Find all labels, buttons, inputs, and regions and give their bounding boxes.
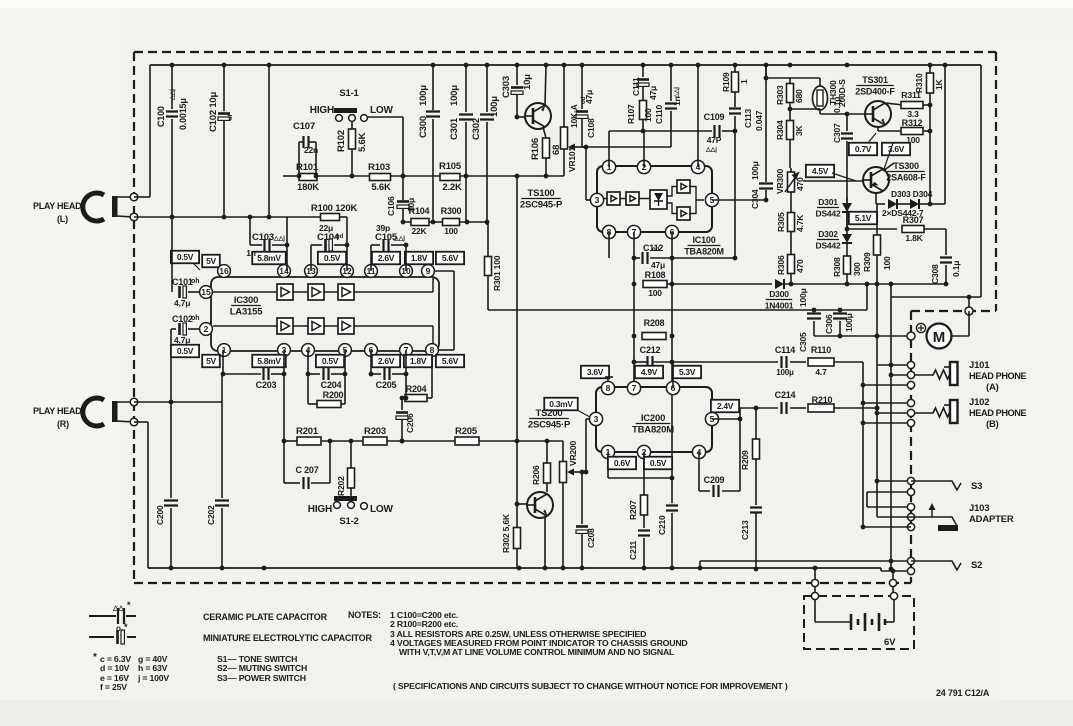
svg-text:C209: C209 — [704, 475, 725, 485]
svg-text:R301 100: R301 100 — [492, 255, 502, 291]
svg-text:0.5V: 0.5V — [322, 356, 339, 366]
capacitor C113 — [729, 109, 741, 114]
svg-text:od: od — [336, 234, 344, 240]
thermistor TH300 — [819, 78, 821, 87]
capacitor C213 — [750, 508, 762, 513]
svg-text:2SD400-F: 2SD400-F — [855, 87, 895, 97]
wire IC100 pin4 riser — [697, 65, 699, 167]
svg-text:C204: C204 — [321, 380, 342, 390]
voltage 1.8V — [405, 252, 433, 265]
wire TS300 base — [803, 180, 863, 182]
svg-text:R102: R102 — [336, 130, 347, 152]
resistor R107 — [640, 101, 647, 120]
svg-text:22μ: 22μ — [319, 223, 333, 233]
svg-text:R203: R203 — [364, 426, 386, 437]
voltage 4.5V — [806, 165, 834, 178]
IC200 pin 4 — [692, 445, 705, 458]
svg-text:5.6V: 5.6V — [442, 253, 459, 263]
IC300 pin 11 — [365, 265, 378, 278]
wire C113 down to pin6 node — [734, 131, 736, 258]
voltage 0.3mV — [544, 398, 578, 411]
voltage 2.6V — [372, 252, 400, 265]
svg-text:C206: C206 — [405, 413, 415, 433]
svg-text:VR200: VR200 — [568, 441, 578, 466]
resistor R207 — [643, 452, 645, 495]
svg-text:0.3mV: 0.3mV — [549, 399, 573, 409]
wire IC100 pin6 to filter — [671, 232, 673, 478]
svg-text:180K: 180K — [297, 182, 319, 193]
svg-text:PLAY HEAD: PLAY HEAD — [33, 201, 82, 211]
svg-text:(R): (R) — [57, 419, 69, 429]
IC300 pin 2 — [200, 323, 213, 336]
wire play head R to border — [117, 401, 134, 403]
svg-text:NOTES:: NOTES: — [348, 610, 381, 620]
svg-text:39p: 39p — [376, 223, 390, 233]
voltage 5.3V — [673, 366, 701, 379]
voltage 2.6V lower — [372, 355, 400, 368]
svg-text:2SC945·P: 2SC945·P — [528, 420, 571, 431]
IC100 pin 2 — [637, 160, 650, 173]
battery border terminals — [811, 579, 818, 586]
voltage 0.5V — [318, 252, 346, 265]
J102 terminals — [907, 399, 914, 406]
svg-text:C113: C113 — [743, 108, 753, 128]
svg-text:D302: D302 — [818, 229, 838, 239]
ground rail bottom — [148, 567, 881, 569]
svg-text:5.6K: 5.6K — [357, 132, 368, 152]
voltage 0.5V top-left — [171, 251, 199, 264]
svg-text:C106: C106 — [386, 196, 396, 216]
wire TS300 emitter to diodes D303 D304 — [875, 193, 877, 204]
svg-text:2.6V: 2.6V — [378, 356, 395, 366]
voltage 0.7V — [849, 143, 877, 156]
IC300 pin 1 — [218, 344, 231, 357]
wire R208 right riser — [670, 360, 675, 365]
IC200 pin 1 — [601, 445, 614, 458]
svg-text:0.5V: 0.5V — [177, 252, 194, 262]
wire motor plus drop — [968, 297, 970, 311]
IC300 pin 14 — [278, 265, 291, 278]
voltage 5.1V — [849, 212, 877, 225]
wire wiper node right to C110 — [586, 146, 671, 148]
svg-text:C203: C203 — [256, 380, 277, 390]
svg-text:h = 63V: h = 63V — [138, 663, 168, 673]
capacitor C111 — [642, 65, 644, 77]
svg-text:2SA608-F: 2SA608-F — [886, 173, 926, 183]
svg-text:HIGH: HIGH — [308, 504, 332, 515]
svg-text:0.1μ: 0.1μ — [832, 97, 842, 113]
dashed chassis border left — [133, 52, 135, 583]
voltage 0.5V IC200 — [644, 457, 672, 470]
node rail junctions — [170, 63, 175, 68]
potentiometer VR300 — [790, 168, 792, 172]
svg-text:D303 D304: D303 D304 — [891, 189, 933, 199]
svg-text:5.8mV: 5.8mV — [257, 356, 281, 366]
IC300 pin 8 — [426, 344, 439, 357]
wire IC200 pin8 pointer from 3.6V — [605, 376, 613, 378]
svg-text:CERAMIC PLATE CAPACITOR: CERAMIC PLATE CAPACITOR — [203, 612, 328, 622]
IC300 pin 13 — [305, 265, 318, 278]
svg-text:C306: C306 — [824, 314, 834, 334]
voltage 1.8V lower — [404, 355, 432, 368]
svg-text:J103: J103 — [969, 503, 989, 514]
svg-text:5.1V: 5.1V — [855, 213, 872, 223]
IC300 pin 15 — [200, 286, 213, 299]
svg-text:15: 15 — [201, 287, 211, 297]
wire pin14 riser — [286, 217, 288, 271]
wire IC200 pin5 out — [712, 418, 740, 420]
svg-text:LA3155: LA3155 — [230, 307, 264, 318]
IC300 pin 4 — [302, 344, 315, 357]
svg-text:100μ: 100μ — [449, 85, 460, 106]
svg-text:IC200: IC200 — [641, 413, 665, 424]
IC200 outline — [596, 387, 712, 452]
wire signal line to TS100 base node — [517, 175, 564, 177]
svg-text:R105: R105 — [439, 161, 462, 172]
svg-text:10μ: 10μ — [522, 74, 533, 90]
wire TS100 collector to rail — [545, 65, 546, 106]
wire C114 R110 line — [776, 361, 778, 363]
svg-text:8: 8 — [430, 345, 435, 355]
svg-text:of: of — [228, 113, 234, 120]
resistor R302 — [516, 504, 518, 527]
svg-text:C205: C205 — [376, 380, 397, 390]
svg-text:S3–– POWER SWITCH: S3–– POWER SWITCH — [217, 673, 306, 683]
svg-text:3.6V: 3.6V — [587, 367, 604, 377]
svg-text:5.6K: 5.6K — [371, 182, 391, 193]
capacitor C106 — [402, 176, 404, 200]
svg-text:R108: R108 — [645, 270, 666, 280]
svg-text:R109: R109 — [721, 72, 731, 92]
wire head R top terminal — [134, 401, 222, 403]
svg-text:4,7μ: 4,7μ — [174, 335, 190, 345]
svg-text:C108: C108 — [586, 118, 596, 138]
svg-text:3: 3 — [594, 414, 599, 424]
transistor TS301 — [865, 101, 891, 127]
jack J103 symbol — [911, 517, 957, 526]
IC300 upper amplifier row — [277, 284, 293, 300]
svg-text:*: * — [124, 622, 128, 632]
svg-text:TS301: TS301 — [862, 75, 888, 85]
svg-text:( SPECIFICATIONS AND CIRCUITS: ( SPECIFICATIONS AND CIRCUITS SUBJECT TO… — [393, 681, 788, 691]
svg-text:C308: C308 — [930, 264, 940, 284]
svg-text:0.1μ: 0.1μ — [951, 261, 961, 277]
voltage 3.6V — [882, 143, 910, 156]
wire rail to head L terminal — [149, 65, 151, 197]
svg-text:C211: C211 — [628, 540, 638, 560]
wire riser 433 — [432, 173, 434, 222]
resistor R102 — [351, 121, 353, 129]
svg-text:C109: C109 — [704, 112, 725, 122]
svg-text:0.6V: 0.6V — [614, 458, 631, 468]
svg-text:100: 100 — [643, 108, 653, 122]
svg-text:R308: R308 — [832, 257, 842, 277]
wire pin3 node down to R201 — [283, 374, 285, 441]
svg-text:C302: C302 — [471, 118, 482, 140]
svg-text:22K: 22K — [412, 226, 428, 236]
svg-text:R101: R101 — [296, 162, 319, 173]
wire wiper node down to IC100 pin3 — [585, 147, 587, 200]
svg-text:TS300: TS300 — [893, 161, 919, 171]
switch S2 symbol — [911, 561, 957, 570]
svg-text:C213: C213 — [740, 520, 750, 540]
capacitor C303 — [516, 65, 518, 85]
wire IC200 pin1 loop — [607, 452, 609, 478]
svg-text:VR300: VR300 — [775, 169, 785, 194]
svg-text:C301: C301 — [449, 117, 460, 140]
svg-text:C110: C110 — [654, 104, 664, 124]
svg-text:C111: C111 — [631, 77, 641, 96]
resistor R305 — [790, 212, 792, 214]
svg-text:R300: R300 — [441, 206, 462, 216]
motor M — [927, 324, 952, 349]
svg-text:1.8K: 1.8K — [905, 233, 923, 243]
svg-text:0.5V: 0.5V — [177, 346, 194, 356]
svg-text:680: 680 — [794, 89, 804, 103]
legend electrolytic capacitor symbol — [89, 636, 114, 638]
wire wiper to IC200 pin3 — [585, 419, 587, 472]
diode D302 — [842, 234, 852, 243]
svg-text:47μ: 47μ — [651, 260, 665, 270]
svg-text:2SC945-P: 2SC945-P — [520, 200, 563, 211]
svg-text:R306: R306 — [776, 255, 786, 275]
wire C210 riser — [671, 478, 673, 503]
resistor R202 — [350, 441, 352, 469]
svg-text:5.6V: 5.6V — [442, 356, 459, 366]
svg-text:470: 470 — [795, 177, 805, 191]
capacitor C306 — [838, 308, 843, 313]
wire pin13 riser — [310, 245, 312, 271]
wire pin5 riser down — [344, 350, 346, 374]
capacitor C210 — [666, 506, 678, 511]
wire pin11 riser — [370, 245, 372, 271]
wire IC100 pin5 to C304 — [712, 199, 766, 201]
supply wire to D300 — [667, 283, 772, 285]
svg-text:0.5V: 0.5V — [324, 253, 341, 263]
IC200 pin 8 — [601, 381, 614, 394]
op-amp IC100 outline — [597, 166, 712, 232]
svg-text:D301: D301 — [818, 197, 838, 207]
S2 terminals — [907, 557, 914, 564]
svg-text:4.9V: 4.9V — [641, 367, 658, 377]
svg-text:100: 100 — [444, 226, 458, 236]
svg-text:4,7μ: 4,7μ — [174, 298, 190, 308]
capacitor C102 — [223, 65, 225, 111]
wire TS100 base — [517, 116, 525, 118]
battery cell symbol — [814, 599, 816, 622]
capacitor C100 — [171, 65, 173, 109]
svg-text:R307: R307 — [903, 215, 924, 225]
svg-text:300: 300 — [852, 262, 862, 276]
svg-text:*: * — [93, 652, 97, 663]
IC100 pin 4 — [691, 160, 704, 173]
jack J102 symbol — [915, 408, 950, 417]
capacitor C108 — [581, 65, 583, 109]
wire TS301 base — [820, 113, 865, 115]
svg-text:47P: 47P — [707, 135, 722, 145]
motor left terminal — [907, 332, 915, 340]
svg-text:47μ: 47μ — [648, 86, 658, 100]
svg-text:C208: C208 — [586, 528, 596, 548]
svg-text:9: 9 — [426, 266, 431, 276]
svg-text:C307: C307 — [832, 123, 842, 143]
IC100 pin 5 — [705, 193, 718, 206]
motor polarity mark — [916, 323, 925, 332]
svg-text:3K: 3K — [794, 124, 804, 136]
svg-text:S3: S3 — [971, 481, 982, 492]
svg-text:△△j: △△j — [393, 235, 405, 242]
resistor R206 — [546, 441, 548, 463]
svg-text:od: od — [652, 247, 660, 253]
svg-text:C305: C305 — [798, 332, 808, 352]
svg-text:oh: oh — [191, 315, 200, 322]
svg-text:4.7: 4.7 — [815, 367, 827, 377]
wire vertical bus 891 — [890, 297, 892, 569]
IC300 pin 16 — [218, 265, 231, 278]
svg-text:2: 2 — [204, 324, 209, 334]
svg-text:100μ: 100μ — [750, 161, 760, 180]
wire pin5 node down to R209 — [755, 408, 757, 439]
svg-text:R310: R310 — [914, 73, 924, 93]
IC300 lower amplifier row — [277, 318, 293, 334]
wire J101 terminal stubs — [877, 364, 911, 366]
svg-text:MINIATURE ELECTROLYTIC CAPACIT: MINIATURE ELECTROLYTIC CAPACITOR — [203, 633, 372, 643]
IC200 pin 5 — [705, 412, 718, 425]
voltage 0.5V lower — [316, 355, 344, 368]
svg-text:J102: J102 — [969, 397, 989, 408]
svg-text:R312: R312 — [902, 118, 923, 128]
jack J101 symbol — [915, 370, 950, 379]
IC100 pin 3 — [590, 193, 603, 206]
svg-text:(A): (A) — [986, 382, 999, 393]
svg-text:HEAD PHONE: HEAD PHONE — [969, 371, 1027, 381]
svg-text:R309: R309 — [862, 252, 872, 272]
supply wire after D300 — [784, 283, 948, 285]
resistor R106 — [543, 127, 546, 138]
svg-text:R103: R103 — [368, 162, 390, 173]
switch S3 symbol — [911, 481, 957, 490]
svg-text:1K: 1K — [934, 78, 944, 90]
wire vertical bus 877 — [876, 284, 878, 492]
IC300 pin 10 — [400, 265, 413, 278]
svg-text:1n: 1n — [246, 248, 256, 258]
IC300 pin 12 — [341, 265, 354, 278]
voltage 3.6V IC200 — [581, 366, 609, 379]
resistor R301 — [487, 222, 489, 257]
battery box dashed — [804, 596, 914, 649]
wire pin3 riser down — [283, 350, 285, 374]
voltage 5.6V — [436, 252, 464, 265]
voltage 5V — [202, 255, 220, 268]
wire R312 node down to diode pair — [929, 131, 931, 204]
voltage 0.6V — [608, 457, 636, 470]
svg-text:6V: 6V — [884, 637, 896, 648]
svg-text:TBA820M: TBA820M — [684, 247, 724, 257]
svg-text:C214: C214 — [775, 390, 796, 400]
svg-text:D300: D300 — [769, 289, 789, 299]
svg-text:TBA820M: TBA820M — [632, 425, 674, 436]
svg-text:5V: 5V — [206, 256, 216, 266]
wire TS200 emitter to ground — [544, 516, 546, 568]
wire pin7 riser down — [405, 350, 407, 374]
wire vertical bus 863 — [862, 362, 864, 527]
svg-text:4.7K: 4.7K — [795, 214, 805, 232]
svg-text:LOW: LOW — [370, 105, 393, 116]
wire TH300 R303 bottom node — [790, 108, 820, 110]
svg-text:100: 100 — [648, 288, 662, 298]
svg-text:22n: 22n — [304, 145, 318, 155]
svg-text:R106: R106 — [530, 138, 541, 160]
wire S1-1 low to R103 node — [368, 116, 403, 118]
svg-text:C304: C304 — [750, 189, 760, 209]
capacitor C110 — [670, 65, 672, 101]
voltage 5.6V right lower — [436, 355, 464, 368]
wire IC100 pin7 down — [633, 232, 635, 388]
dashed chassis border right-lower — [910, 311, 912, 583]
svg-text:R100 120K: R100 120K — [311, 203, 358, 214]
capacitor C206 — [401, 398, 403, 410]
IC300 pin 3 — [278, 344, 291, 357]
svg-text:16: 16 — [219, 266, 229, 276]
IC200 pin 2 — [637, 445, 650, 458]
wire motor feed from rail far right — [980, 65, 982, 297]
svg-text:△△j: △△j — [273, 235, 285, 242]
svg-text:2.2K: 2.2K — [442, 182, 462, 193]
voltage 5V lower — [202, 355, 220, 368]
svg-text:C100: C100 — [156, 106, 166, 127]
wire C102 input from play head R line — [170, 329, 172, 402]
dashed chassis border top — [134, 51, 996, 53]
svg-text:1N4001: 1N4001 — [765, 301, 794, 311]
svg-text:1: 1 — [739, 79, 749, 84]
svg-text:100μ: 100μ — [844, 313, 854, 332]
wire C305 C306 ground returns to motor line — [814, 335, 909, 337]
resistor R309 — [876, 204, 878, 235]
svg-text:*: * — [127, 600, 131, 610]
svg-text:C300: C300 — [418, 116, 429, 138]
svg-text:C212: C212 — [640, 345, 661, 355]
svg-text:(B): (B) — [986, 419, 999, 430]
svg-text:1.8V: 1.8V — [410, 356, 427, 366]
svg-text:IC300: IC300 — [234, 295, 258, 306]
svg-text:IC100: IC100 — [692, 235, 715, 245]
wire TS301 collector to R311 — [885, 103, 903, 105]
IC100 pin 8 — [602, 225, 615, 238]
capacitor C304 — [765, 65, 767, 182]
svg-text:0.7V: 0.7V — [855, 144, 872, 154]
svg-text:R305: R305 — [776, 212, 786, 232]
svg-text:WITH V,T,V,M AT LINE VOLUME CO: WITH V,T,V,M AT LINE VOLUME CONTROL MINI… — [399, 647, 675, 657]
svg-text:△△j: △△j — [705, 146, 717, 153]
svg-text:C210: C210 — [657, 515, 667, 535]
supply wire to S2 upper — [700, 560, 911, 562]
svg-text:R204: R204 — [406, 384, 427, 394]
svg-text:HEAD PHONE: HEAD PHONE — [969, 408, 1027, 418]
svg-text:5V: 5V — [206, 356, 216, 366]
svg-text:oh: oh — [191, 278, 200, 285]
IC100 pin 1 — [602, 160, 615, 173]
svg-text:5.3V: 5.3V — [679, 367, 696, 377]
capacitor C302 — [486, 65, 488, 112]
IC100 internal amplifiers — [607, 192, 620, 205]
capacitor C205 — [370, 350, 372, 374]
resistor R306 — [788, 255, 795, 274]
dashed chassis border step — [911, 310, 996, 312]
svg-text:2 R100=R200 etc.: 2 R100=R200 etc. — [390, 619, 458, 629]
IC200 pin 3 — [589, 412, 602, 425]
svg-text:3: 3 — [595, 195, 600, 205]
capacitor C307 — [846, 114, 848, 131]
